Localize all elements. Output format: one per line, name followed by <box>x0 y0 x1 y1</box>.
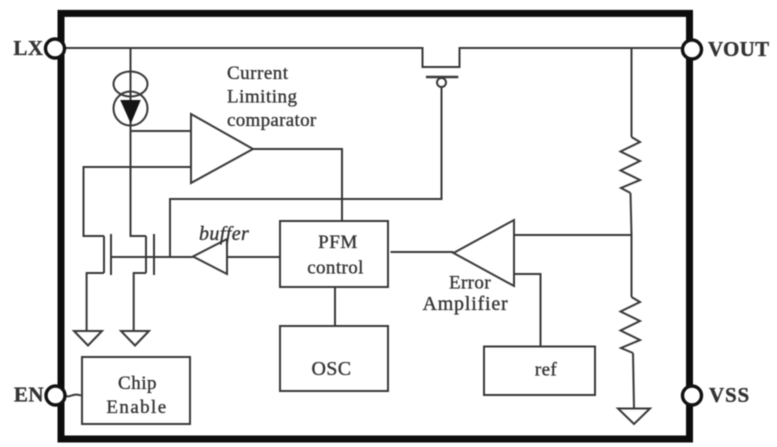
pin LX <box>46 39 65 58</box>
svg-text:LX: LX <box>13 36 43 60</box>
wire: PFM control to buffer input <box>227 256 280 258</box>
resistor R1 <box>621 137 641 193</box>
svg-text:Chip: Chip <box>118 373 157 394</box>
pin VSS <box>683 386 702 405</box>
transistor Q3 PMOS bubble <box>437 78 446 87</box>
transistor Q3 PMOS gate bar <box>426 76 458 79</box>
OSC box <box>280 326 388 391</box>
transistor Q2 NMOS channel <box>145 236 147 273</box>
svg-text:Enable: Enable <box>106 397 167 418</box>
svg-text:ref: ref <box>535 360 558 381</box>
pin VOUT <box>683 40 702 59</box>
wire: VOUT rail down to R1 <box>631 48 633 137</box>
transistor Q2 NMOS gate <box>153 234 155 275</box>
wire: current source branch from rail down to Q2 drain <box>131 48 147 236</box>
wire: R2 to ground <box>633 353 634 409</box>
svg-text:VOUT: VOUT <box>708 37 769 61</box>
wire: error amplifier output to PFM control <box>391 251 454 253</box>
svg-text:OSC: OSC <box>311 358 351 380</box>
wire: feedback divider tap to error amplifier input <box>514 234 632 236</box>
wire: Q1 source to ground <box>87 273 104 331</box>
wire: ref to error amplifier input <box>514 274 541 346</box>
transistor Q1 NMOS channel <box>103 236 105 273</box>
wire: PMOS gate down and across to buffer net <box>170 87 442 257</box>
wire: comparator output to PFM control <box>253 149 342 221</box>
svg-text:buffer: buffer <box>199 223 249 245</box>
pin EN <box>46 386 65 405</box>
label: Error Amplifier <box>422 273 508 316</box>
svg-text:Limiting: Limiting <box>227 87 298 108</box>
PFM control box <box>280 221 388 287</box>
buffer triangle <box>193 239 227 274</box>
label: Current Limiting comparator <box>227 63 317 131</box>
op-amp U2 error amplifier <box>454 220 515 286</box>
wire: R1 to R2 through feedback tap <box>631 193 632 297</box>
wire: buffer output to NMOS gates <box>111 256 193 258</box>
wire: comparator plus input <box>131 130 192 132</box>
svg-text:control: control <box>307 258 364 279</box>
svg-text:VSS: VSS <box>709 383 750 407</box>
wire: comparator minus input from Q1 drain <box>84 167 192 236</box>
op-amp U1 current limiting comparator <box>191 114 253 183</box>
wire: PFM control to OSC <box>334 288 336 326</box>
ref box <box>484 347 595 396</box>
IC outline <box>61 13 690 439</box>
current source I1 <box>114 72 148 126</box>
svg-text:Current: Current <box>227 63 289 84</box>
wire: LX to VOUT top rail with PMOS channel dip <box>64 48 682 67</box>
svg-text:PFM: PFM <box>318 232 358 253</box>
resistor R2 <box>621 297 641 353</box>
wire: Q2 source to ground <box>134 273 146 331</box>
svg-text:comparator: comparator <box>227 110 317 131</box>
svg-text:EN: EN <box>14 383 44 407</box>
ground at Q2 source <box>121 331 149 346</box>
ground below R2 <box>618 409 650 425</box>
svg-text:Amplifier: Amplifier <box>422 293 508 315</box>
wire: EN pin to chip enable box <box>65 395 81 397</box>
svg-text:Error: Error <box>449 273 491 294</box>
transistor Q1 NMOS gate <box>110 234 112 275</box>
Chip Enable box <box>82 357 190 424</box>
ground at Q1 source <box>74 331 102 346</box>
